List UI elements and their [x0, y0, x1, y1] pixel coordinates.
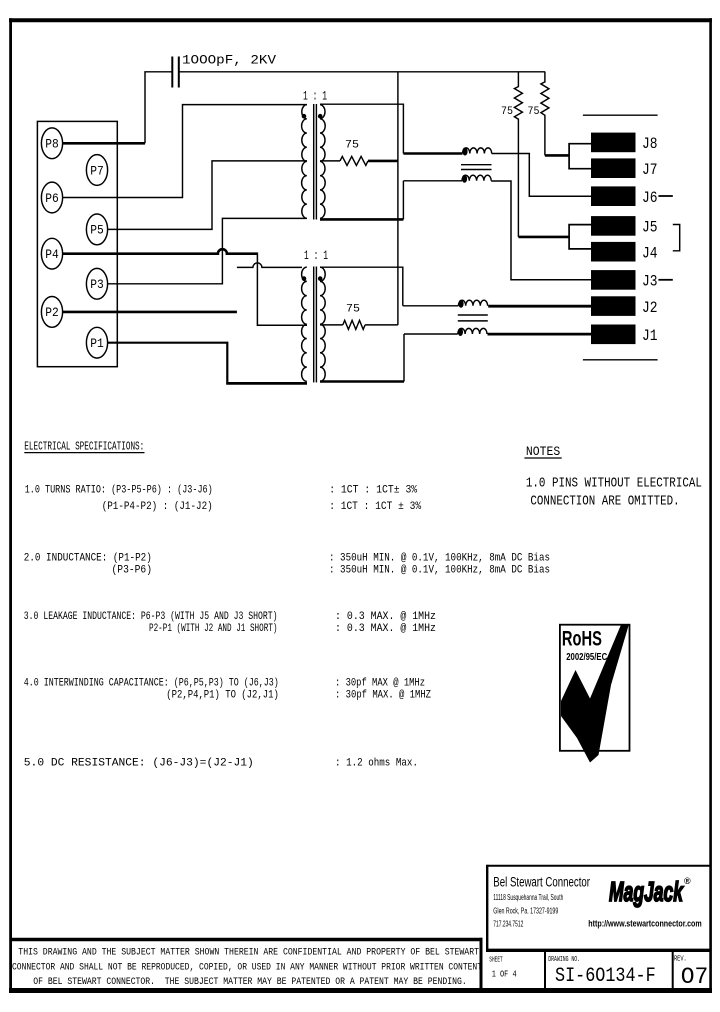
svg-text:75: 75	[528, 106, 540, 118]
svg-text:J4: J4	[642, 245, 658, 263]
svg-text:THIS DRAWING AND THE SUBJECT M: THIS DRAWING AND THE SUBJECT MATTER SHOW…	[18, 947, 479, 958]
resistor R2 75	[343, 320, 365, 329]
T2 phase dot secondary	[318, 276, 323, 281]
svg-text:: 1CT : 1CT ± 3%: : 1CT : 1CT ± 3%	[329, 501, 421, 513]
spec 5.0 dc resistance	[24, 757, 418, 769]
svg-text:(P1-P4-P2) : (J1-J2): (P1-P4-P2) : (J1-J2)	[102, 501, 213, 513]
svg-text:J1: J1	[642, 327, 658, 345]
svg-text:: 1.2 ohms Max.: : 1.2 ohms Max.	[335, 757, 418, 769]
contact J1	[591, 325, 658, 346]
disclaimer text	[12, 947, 482, 988]
spec 3.0 leakage inductance	[24, 611, 436, 635]
pin P8	[41, 128, 62, 159]
svg-text:P2-P1 (WITH J2 AND J1 SHORT): P2-P1 (WITH J2 AND J1 SHORT)	[149, 623, 278, 635]
RoHS checkmark	[561, 625, 629, 763]
svg-text:P5: P5	[90, 223, 104, 238]
resistor R3 75 (vertical)	[514, 72, 522, 237]
svg-text:4.0 INTERWINDING CAPACITANCE:: 4.0 INTERWINDING CAPACITANCE: (P6,P5,P3)…	[24, 678, 279, 690]
jumper J5-J4	[569, 225, 591, 249]
wire P1 to T2 primary bottom	[108, 343, 228, 384]
svg-text:SHEET: SHEET	[489, 956, 502, 964]
sheet row dividers	[545, 951, 673, 990]
svg-text:75: 75	[501, 106, 513, 118]
svg-text:: 30pf MAX. @ 1MHZ: : 30pf MAX. @ 1MHZ	[335, 690, 431, 702]
disclaimer box	[10, 938, 483, 991]
wire P4 to T2 primary center tap (hop over P3 wire)	[62, 249, 257, 254]
svg-text:O7: O7	[681, 964, 709, 990]
wire to T2 primary top (hop over P4 vertical)	[237, 263, 302, 268]
choke L1 feed top	[403, 152, 462, 155]
connector P-box	[37, 121, 117, 366]
svg-text:: 0.3 MAX. @ 1MHz: : 0.3 MAX. @ 1MHz	[335, 611, 436, 623]
svg-text:2002/95/EC: 2002/95/EC	[566, 651, 607, 663]
pin P6	[41, 182, 62, 213]
wire T2 secondary center to resistor R2	[320, 324, 343, 326]
svg-text:: 1CT : 1CT± 3%: : 1CT : 1CT± 3%	[329, 485, 417, 497]
transformer T2	[302, 267, 326, 383]
capacitor C1	[172, 57, 179, 88]
contact J6	[591, 186, 658, 207]
svg-text:J7: J7	[642, 161, 658, 179]
pin P7	[86, 155, 107, 186]
svg-text:1OOOpF, 2KV: 1OOOpF, 2KV	[182, 53, 276, 68]
contact J7	[591, 158, 658, 179]
spec 2.0 inductance	[24, 553, 550, 577]
svg-text:J3: J3	[642, 273, 658, 291]
contact J4	[591, 242, 658, 263]
wire T1 secondary top to choke L1 top	[320, 104, 403, 153]
choke L2 feed top	[403, 305, 459, 307]
choke L1 feed bottom	[403, 180, 462, 182]
svg-text:DRAWING NO.: DRAWING NO.	[548, 956, 580, 964]
pin P2	[41, 297, 62, 328]
wire T2 secondary top to choke L2 top	[320, 267, 403, 306]
svg-text:: 350uH MIN. @ 0.1V, 100KHz, 8: : 350uH MIN. @ 0.1V, 100KHz, 8mA DC Bias	[329, 553, 550, 565]
wire choke L1 bottom to J3	[491, 181, 591, 280]
pin P5	[86, 214, 107, 245]
svg-text:SI-6O134-F: SI-6O134-F	[555, 965, 656, 988]
wire choke L2 top to J2	[488, 305, 591, 308]
T1 phase dot secondary	[318, 114, 323, 119]
svg-text:P3: P3	[90, 277, 104, 292]
company box	[486, 865, 710, 951]
wire R1 to termination bus	[368, 160, 398, 163]
svg-text:CONNECTION ARE OMITTED.: CONNECTION ARE OMITTED.	[530, 493, 679, 509]
wire termination bus	[397, 72, 399, 325]
wire R4 to J8/J7 jumper	[545, 154, 569, 157]
pin P3	[86, 268, 107, 299]
svg-text:P2: P2	[45, 305, 59, 320]
svg-text:1 : 1: 1 : 1	[303, 89, 327, 104]
svg-text:(P2,P4,P1) TO (J2,J1): (P2,P4,P1) TO (J2,J1)	[166, 690, 278, 702]
wire T1 secondary center to resistor R1	[320, 160, 340, 162]
T1 phase dot primary	[302, 114, 307, 119]
J6 dash	[658, 195, 672, 197]
svg-text:P7: P7	[90, 163, 104, 178]
svg-text:®: ®	[684, 876, 691, 886]
svg-text:717.234.7512: 717.234.7512	[493, 919, 523, 929]
J5/J4 right bracket	[673, 225, 680, 251]
svg-text:P8: P8	[45, 137, 59, 152]
svg-text:J2: J2	[642, 299, 658, 317]
J3 dash	[658, 279, 672, 281]
svg-text:P6: P6	[45, 191, 59, 206]
jumper J8-J7	[569, 144, 591, 169]
svg-text:1.0 PINS WITHOUT ELECTRICAL: 1.0 PINS WITHOUT ELECTRICAL	[526, 476, 702, 492]
wire choke L1 top to J6	[492, 154, 591, 197]
svg-text:OF BEL STEWART CONNECTOR. THE: OF BEL STEWART CONNECTOR. THE SUBJECT MA…	[33, 977, 466, 988]
transformer T1	[302, 104, 326, 220]
wire P6 to T1 primary top	[62, 105, 307, 198]
pin P4	[41, 238, 62, 269]
spec 4.0 interwinding capacitance	[24, 678, 432, 702]
svg-text:J8: J8	[642, 135, 658, 153]
wire T2 secondary bottom to choke L2 bottom	[320, 380, 404, 383]
choke L2 feed bottom	[404, 333, 458, 335]
wire R2 to termination bus	[365, 324, 398, 326]
svg-text:P4: P4	[45, 247, 59, 262]
svg-text:Glen Rock, Pa. 17327-9199: Glen Rock, Pa. 17327-9199	[493, 905, 558, 915]
T2 phase dot primary	[302, 276, 307, 281]
choke L2	[458, 300, 488, 334]
svg-text:MagJack: MagJack	[609, 876, 684, 907]
wire capacitor to termination bus and top resistors	[179, 71, 545, 73]
svg-text:5.0 DC RESISTANCE: (J6-J3)=(J2: 5.0 DC RESISTANCE: (J6-J3)=(J2-J1)	[24, 757, 254, 769]
svg-text:CONNECTOR AND SHALL NOT BE REP: CONNECTOR AND SHALL NOT BE REPRODUCED, C…	[12, 963, 482, 974]
svg-text:2.0 INDUCTANCE: (P1-P2): 2.0 INDUCTANCE: (P1-P2)	[24, 553, 152, 565]
svg-text:1 : 1: 1 : 1	[304, 248, 328, 263]
svg-text:P1: P1	[90, 336, 104, 351]
svg-text:75: 75	[345, 140, 359, 152]
svg-text:Bel Stewart Connector: Bel Stewart Connector	[493, 875, 590, 891]
wire R3 to J5/J4 jumper	[518, 236, 569, 239]
svg-text:REV.: REV.	[674, 955, 687, 963]
resistor R1 75	[340, 156, 368, 165]
svg-text:1.0 TURNS RATIO: (P3-P5-P6) :: 1.0 TURNS RATIO: (P3-P5-P6) : (J3-J6)	[25, 485, 213, 497]
spec 1.0 turns ratio	[25, 485, 422, 513]
svg-text:1 OF 4: 1 OF 4	[492, 969, 517, 980]
wire P3 to T1 primary bottom	[108, 218, 308, 283]
choke L1	[461, 148, 492, 181]
contact J8	[591, 133, 658, 153]
RoHS logo box	[560, 625, 630, 751]
svg-text:: 30pf MAX @ 1MHz: : 30pf MAX @ 1MHz	[335, 678, 425, 690]
svg-text:RoHS: RoHS	[562, 628, 602, 651]
svg-text:J6: J6	[642, 189, 658, 207]
J column top line	[583, 114, 658, 116]
wire T1 secondary bottom to choke L1 bottom	[320, 218, 403, 221]
wire P2 (ends mid-air)	[62, 311, 237, 314]
contact J3	[591, 270, 658, 291]
svg-text:(P3-P6): (P3-P6)	[112, 565, 153, 577]
svg-text:75: 75	[346, 303, 360, 315]
J column bottom line	[583, 359, 658, 361]
svg-text:11118 Susquehanna Trail, South: 11118 Susquehanna Trail, South	[493, 892, 563, 902]
resistor R4 75 (vertical)	[541, 72, 549, 156]
pin P1	[86, 327, 107, 358]
wire choke L2 bottom to J1	[488, 333, 592, 336]
svg-text:NOTES: NOTES	[526, 445, 560, 459]
svg-text:J5: J5	[642, 219, 658, 237]
svg-text:ELECTRICAL SPECIFICATIONS:: ELECTRICAL SPECIFICATIONS:	[24, 441, 144, 454]
wire P8 to capacitor	[62, 142, 145, 145]
contact J2	[591, 296, 658, 317]
wire P5 to T1 primary center tap	[108, 161, 308, 230]
svg-text:http://www.stewartconnector.co: http://www.stewartconnector.com	[588, 918, 701, 928]
svg-text:: 0.3 MAX. @ 1MHz: : 0.3 MAX. @ 1MHz	[335, 623, 436, 635]
svg-text:3.0 LEAKAGE INDUCTANCE: P6-P3: 3.0 LEAKAGE INDUCTANCE: P6-P3 (WITH J5 A…	[24, 611, 278, 623]
contact J5	[591, 216, 658, 237]
svg-text:: 350uH MIN. @ 0.1V, 100KHz, 8: : 350uH MIN. @ 0.1V, 100KHz, 8mA DC Bias	[329, 565, 550, 577]
